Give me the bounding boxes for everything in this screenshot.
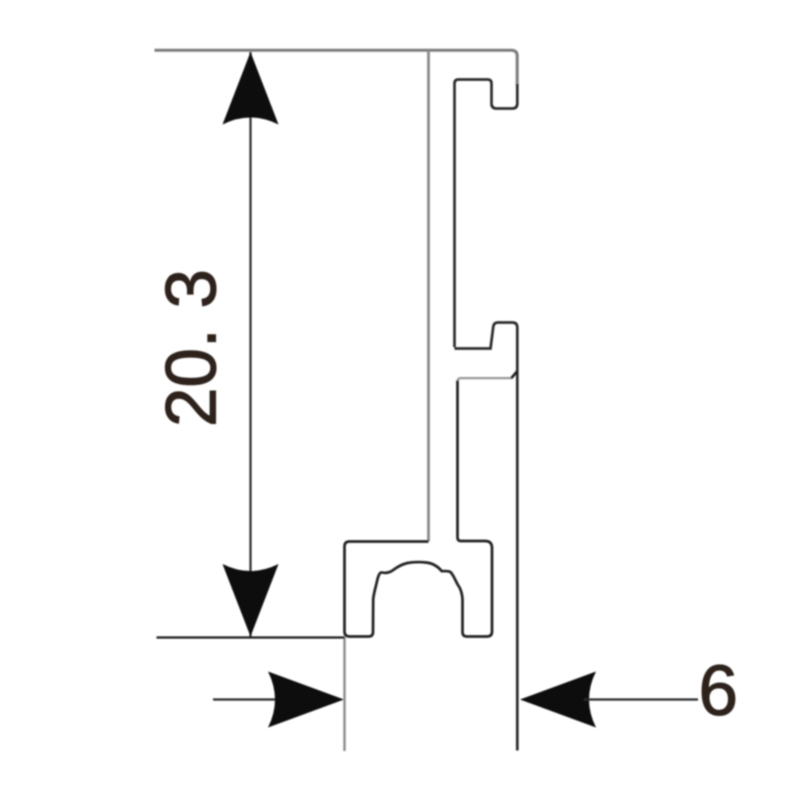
up arrowhead (223, 52, 279, 125)
profile pocket chamfer, inner wall, foot right and screw-boss arch, foot left (345, 371, 518, 636)
vertical dimension line 20.3 (249, 52, 251, 637)
profile middle tab and right wall (wall continues as dimension extension line) (455, 323, 518, 751)
svg-text:20. 3: 20. 3 (153, 269, 232, 427)
profile left stem wall (427, 50, 430, 542)
svg-text:6: 6 (699, 652, 739, 731)
right-pointing arrowhead (268, 672, 344, 728)
horizontal dimension left tail line (213, 698, 280, 700)
profile top hook outline (top-right corner, down-hook, inner slot) (455, 80, 518, 348)
horizontal dimension right tail line (584, 698, 698, 700)
left-pointing arrowhead (520, 672, 596, 728)
down arrowhead (223, 564, 279, 637)
top reference/extension line (gray, includes profile top face) (155, 50, 518, 86)
profile pocket top surface (light) (458, 378, 512, 382)
left dimension extension line below foot (343, 637, 345, 752)
bottom reference line (157, 636, 345, 638)
